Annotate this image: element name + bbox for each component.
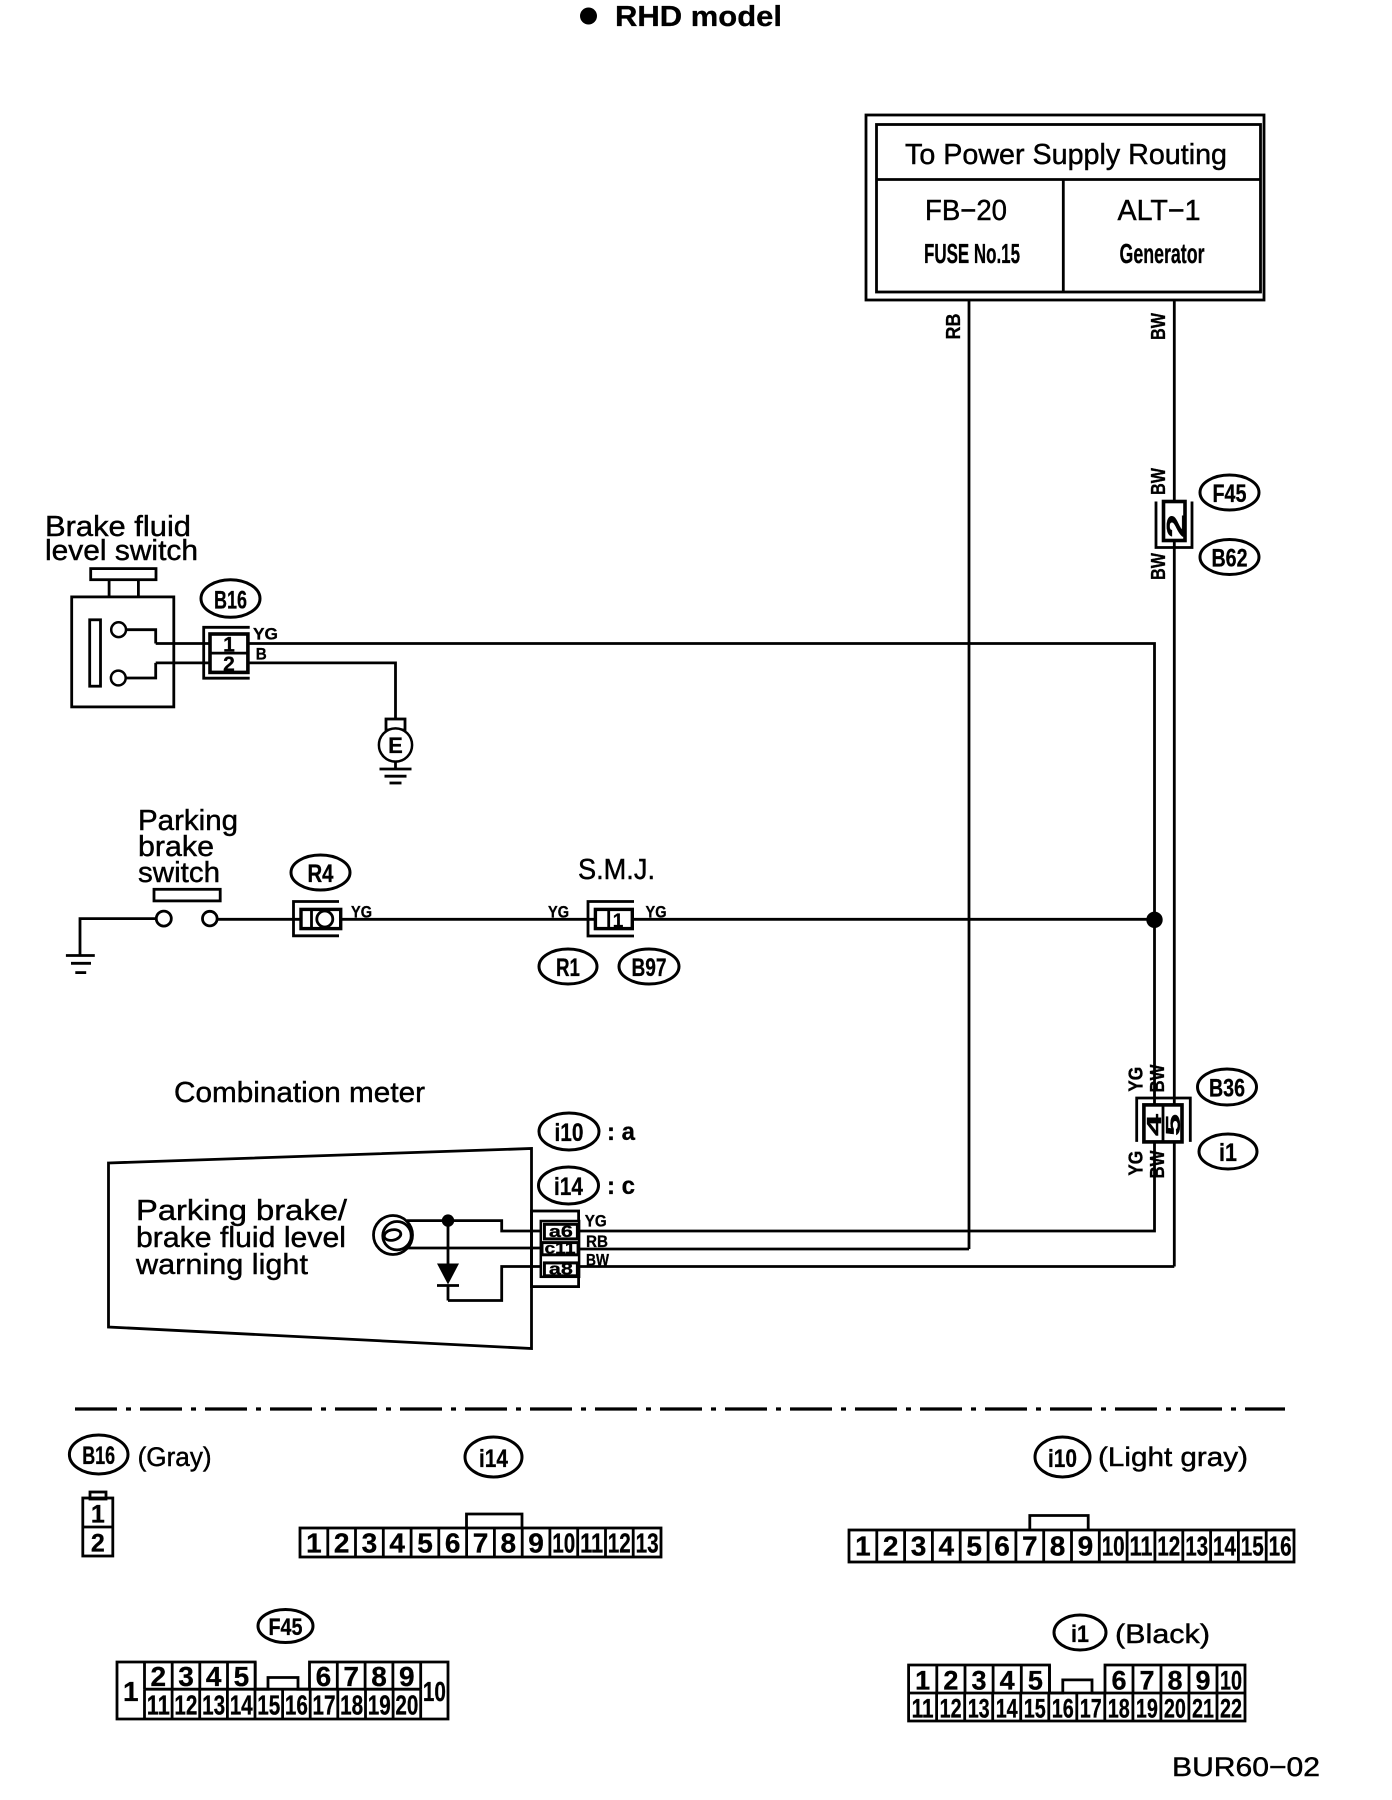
svg-text:15: 15	[1241, 1531, 1264, 1562]
svg-text:2: 2	[883, 1531, 899, 1562]
svg-text:17: 17	[1080, 1694, 1102, 1724]
svg-text:15: 15	[1024, 1694, 1046, 1724]
svg-text:7: 7	[343, 1661, 359, 1692]
svg-text:BW: BW	[1147, 1150, 1169, 1178]
connector oval i1 bottom	[1054, 1615, 1106, 1650]
svg-text:18: 18	[340, 1690, 363, 1721]
parking brake switch symbol	[154, 889, 220, 926]
wire YG switch to junction	[217, 918, 1154, 921]
svg-text:5: 5	[966, 1531, 982, 1562]
svg-text:a8: a8	[549, 1259, 573, 1278]
svg-text:10: 10	[1220, 1666, 1242, 1696]
svg-text:1: 1	[306, 1528, 322, 1559]
svg-text:2: 2	[334, 1528, 350, 1559]
pin a8	[544, 1259, 577, 1278]
ground E	[379, 719, 412, 783]
brake fluid level switch symbol	[72, 569, 174, 707]
svg-text:Generator: Generator	[1120, 238, 1205, 269]
svg-text:11: 11	[1130, 1531, 1153, 1562]
svg-text:YG: YG	[351, 903, 372, 922]
svg-text:11: 11	[912, 1694, 934, 1724]
svg-text:8: 8	[1167, 1666, 1182, 1696]
pin a6	[544, 1222, 577, 1241]
svg-text:15: 15	[257, 1690, 280, 1721]
connector oval i1	[1199, 1134, 1257, 1169]
svg-text:: a: : a	[607, 1118, 636, 1146]
wire diode to a8	[448, 1267, 545, 1301]
svg-text:5: 5	[234, 1661, 250, 1692]
svg-text:2: 2	[1161, 514, 1191, 538]
connector oval F45	[1200, 475, 1259, 510]
svg-text:6: 6	[445, 1528, 461, 1559]
svg-text:6: 6	[994, 1531, 1010, 1562]
svg-text:(Black): (Black)	[1115, 1619, 1210, 1649]
svg-text:8: 8	[371, 1661, 387, 1692]
connector oval B36	[1198, 1069, 1257, 1105]
connector SMJ symbol	[588, 902, 634, 937]
svg-text:i14: i14	[479, 1445, 508, 1473]
connector B16 pins 1/2	[204, 627, 250, 678]
svg-text:R4: R4	[308, 860, 334, 888]
svg-text:12: 12	[1157, 1531, 1180, 1562]
meter pin group box	[541, 1221, 579, 1277]
svg-text:R1: R1	[556, 954, 580, 982]
svg-text:BW: BW	[586, 1250, 610, 1269]
svg-text:FUSE No.15: FUSE No.15	[924, 238, 1020, 269]
svg-text:9: 9	[399, 1661, 415, 1692]
svg-text:BUR60−02: BUR60−02	[1172, 1752, 1320, 1782]
svg-text:S.M.J.: S.M.J.	[578, 854, 655, 886]
svg-text:3: 3	[971, 1666, 986, 1696]
junction dot at diode	[442, 1214, 454, 1226]
svg-text:4: 4	[389, 1528, 405, 1559]
junction dot YG/parking	[1146, 912, 1162, 928]
svg-text:level switch: level switch	[45, 535, 198, 567]
svg-text:4: 4	[206, 1661, 222, 1692]
svg-text:19: 19	[1136, 1694, 1158, 1724]
diode D	[437, 1221, 459, 1301]
wire BW vertical from ALT-1	[1173, 300, 1176, 1267]
svg-text:BW: BW	[1147, 1064, 1169, 1092]
svg-text:YG: YG	[548, 903, 569, 922]
svg-text:13: 13	[1185, 1531, 1208, 1562]
lamp symbol	[374, 1216, 413, 1255]
svg-text:To Power Supply Routing: To Power Supply Routing	[905, 139, 1227, 171]
svg-text:i1: i1	[1219, 1139, 1237, 1167]
svg-text:(Gray): (Gray)	[138, 1442, 212, 1472]
wire RB vertical from FB-20	[968, 300, 971, 1249]
svg-text:10: 10	[552, 1528, 575, 1559]
svg-text:10: 10	[423, 1676, 446, 1707]
connector oval B16 bottom	[69, 1435, 128, 1474]
svg-text:(Light gray): (Light gray)	[1098, 1442, 1248, 1472]
connector B36/i1 symbol pins 4 5	[1137, 1098, 1191, 1142]
svg-text:1: 1	[123, 1676, 139, 1707]
svg-text:19: 19	[368, 1690, 391, 1721]
svg-text:9: 9	[1078, 1531, 1094, 1562]
svg-text:6: 6	[1111, 1666, 1126, 1696]
svg-text:4: 4	[1000, 1666, 1015, 1696]
svg-text:7: 7	[1139, 1666, 1154, 1696]
svg-text:i14: i14	[554, 1173, 583, 1201]
svg-text:RB: RB	[943, 314, 965, 340]
svg-text:7: 7	[1022, 1531, 1038, 1562]
svg-text:BW: BW	[1148, 468, 1170, 495]
svg-text:F45: F45	[269, 1614, 303, 1641]
svg-text:YG: YG	[646, 903, 667, 922]
separator dash-dot line	[75, 1407, 1285, 1410]
connector oval i10 ref	[539, 1113, 636, 1150]
svg-text:5: 5	[1163, 1114, 1185, 1136]
svg-text:10: 10	[1102, 1531, 1125, 1562]
svg-text:20: 20	[1164, 1694, 1186, 1724]
svg-text:YG: YG	[585, 1212, 607, 1231]
wire lamp to a6	[407, 1221, 545, 1231]
wire RB horizontal to meter c11	[578, 1248, 969, 1251]
connector F45 pinout	[117, 1661, 448, 1721]
svg-text:14: 14	[230, 1690, 253, 1721]
wire BW horizontal to meter a8	[577, 1265, 1174, 1268]
svg-text:8: 8	[501, 1528, 517, 1559]
svg-text:12: 12	[940, 1694, 962, 1724]
svg-text:5: 5	[1028, 1666, 1043, 1696]
connector B16 pinout	[83, 1492, 113, 1558]
svg-text:BW: BW	[1148, 553, 1170, 580]
connector oval R1	[539, 949, 597, 984]
connector oval i14 ref	[539, 1167, 636, 1204]
svg-text:i1: i1	[1071, 1621, 1089, 1648]
svg-text:i10: i10	[1048, 1445, 1077, 1473]
svg-text:E: E	[388, 733, 403, 758]
svg-text:2: 2	[943, 1666, 958, 1696]
connector i14 pinout	[300, 1514, 661, 1559]
combination meter body	[109, 1149, 532, 1349]
svg-text:11: 11	[580, 1528, 603, 1559]
ground parking	[66, 956, 95, 973]
connector oval F45 bottom	[258, 1610, 313, 1643]
connector oval B16	[201, 580, 260, 618]
svg-text:B62: B62	[1212, 545, 1248, 573]
svg-text:RHD model: RHD model	[615, 1, 782, 33]
svg-text:3: 3	[178, 1661, 194, 1692]
svg-text:a6: a6	[549, 1222, 573, 1241]
svg-text:1: 1	[613, 911, 624, 932]
svg-text:1: 1	[855, 1531, 871, 1562]
connector F45/B62 symbol pin 2	[1156, 502, 1192, 548]
pin c11	[542, 1240, 578, 1257]
connector oval B97	[619, 949, 679, 984]
svg-text:1: 1	[915, 1666, 930, 1696]
svg-text:switch: switch	[138, 857, 220, 889]
svg-text:16: 16	[285, 1690, 308, 1721]
svg-text:12: 12	[174, 1690, 197, 1721]
connector i10 pinout	[849, 1516, 1294, 1563]
connector oval i14 bottom	[465, 1437, 522, 1477]
title bullet	[580, 8, 597, 25]
svg-text:c11: c11	[545, 1240, 576, 1257]
connector oval B62	[1200, 540, 1259, 575]
svg-text:14: 14	[996, 1694, 1018, 1724]
svg-text:ALT−1: ALT−1	[1118, 195, 1201, 227]
svg-text:21: 21	[1192, 1694, 1214, 1724]
svg-text:warning light: warning light	[135, 1249, 308, 1281]
svg-text:12: 12	[608, 1528, 631, 1559]
svg-text:YG: YG	[253, 625, 278, 644]
svg-text:13: 13	[202, 1690, 225, 1721]
svg-text:: c: : c	[607, 1172, 635, 1200]
svg-text:1: 1	[91, 1501, 105, 1529]
wire YG long: switch to right column down to meter	[156, 644, 1155, 1232]
svg-text:2: 2	[223, 653, 235, 676]
svg-text:2: 2	[91, 1530, 105, 1558]
svg-text:3: 3	[362, 1528, 378, 1559]
wire lamp to c11	[408, 1247, 545, 1250]
connector oval i10 bottom	[1035, 1437, 1090, 1477]
connector R4 symbol	[294, 902, 341, 936]
svg-text:5: 5	[417, 1528, 433, 1559]
svg-text:13: 13	[968, 1694, 990, 1724]
svg-text:17: 17	[313, 1690, 336, 1721]
svg-text:18: 18	[1108, 1694, 1130, 1724]
svg-text:6: 6	[316, 1661, 332, 1692]
svg-text:9: 9	[1195, 1666, 1210, 1696]
svg-text:F45: F45	[1213, 480, 1247, 508]
svg-text:YG: YG	[1126, 1067, 1148, 1092]
svg-text:B36: B36	[1209, 1075, 1245, 1103]
connector oval R4	[291, 855, 350, 890]
meter connector shell	[532, 1211, 579, 1287]
svg-text:3: 3	[911, 1531, 927, 1562]
svg-text:B16: B16	[214, 587, 247, 615]
svg-text:YG: YG	[1126, 1151, 1148, 1176]
svg-text:8: 8	[1050, 1531, 1066, 1562]
svg-text:22: 22	[1220, 1694, 1242, 1724]
connector i1 pinout	[909, 1665, 1245, 1724]
svg-text:i10: i10	[555, 1119, 584, 1147]
svg-text:B: B	[256, 645, 267, 664]
svg-text:B16: B16	[82, 1442, 115, 1470]
svg-text:4: 4	[939, 1531, 955, 1562]
svg-text:14: 14	[1213, 1531, 1236, 1562]
svg-text:11: 11	[147, 1690, 170, 1721]
svg-text:13: 13	[636, 1528, 659, 1559]
svg-text:2: 2	[151, 1661, 167, 1692]
power supply routing box	[866, 115, 1264, 300]
svg-text:FB−20: FB−20	[925, 195, 1007, 227]
svg-text:9: 9	[528, 1528, 544, 1559]
svg-text:BW: BW	[1148, 313, 1170, 340]
wire to left ground	[80, 919, 156, 955]
svg-text:16: 16	[1052, 1694, 1074, 1724]
svg-text:16: 16	[1269, 1531, 1292, 1562]
svg-text:RB: RB	[586, 1232, 608, 1251]
svg-text:7: 7	[473, 1528, 489, 1559]
wire B from pin2 to ground	[156, 663, 396, 719]
svg-text:Combination meter: Combination meter	[174, 1077, 425, 1109]
svg-text:20: 20	[395, 1690, 418, 1721]
svg-text:B97: B97	[632, 954, 667, 982]
